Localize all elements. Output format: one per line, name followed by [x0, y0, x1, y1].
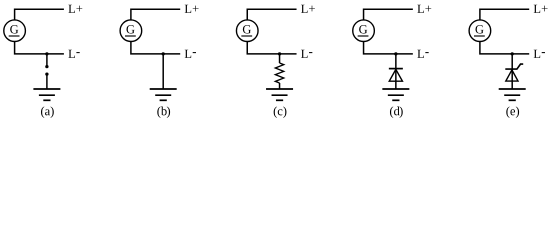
generator G5 circle symbol with letter G underlined: [469, 20, 491, 42]
node L- label: [534, 50, 545, 58]
generator G1 circle symbol with letter G underlined: [4, 20, 26, 42]
ground earth symbol: [33, 89, 60, 100]
node L+ label: [68, 5, 82, 13]
wire from generator G5 top to L+ terminal: [480, 9, 529, 20]
wire from generator G1 top to L+ terminal: [15, 9, 64, 20]
junction dot on L- wire: [511, 52, 514, 55]
node L- label: [185, 50, 196, 58]
wire from generator G5 bottom to L- terminal: [480, 42, 529, 54]
wire from junction directly to ground: [162, 54, 164, 89]
wire from junction to resistor: [279, 54, 281, 63]
node L- label: [68, 50, 79, 58]
wire from junction down to removable link upper terminal: [46, 54, 48, 67]
junction dot on L- wire: [162, 52, 165, 55]
zener diode Z cathode bar with bent hook: [505, 64, 523, 69]
junction dot on L- wire: [278, 52, 281, 55]
node L+ label: [301, 5, 315, 13]
removable link upper terminal dot: [45, 65, 48, 68]
wire from generator G4 bottom to L- terminal: [364, 42, 413, 54]
wire from junction through diode to ground: [395, 54, 397, 89]
wire from generator G2 top to L+ terminal: [131, 9, 180, 20]
node L+ label: [185, 5, 199, 13]
generator G3 circle symbol with letter G underlined: [236, 20, 258, 42]
caption (e): [506, 107, 519, 118]
caption (d): [390, 107, 403, 118]
caption (b): [157, 107, 170, 118]
generator G2 circle symbol with letter G underlined: [120, 20, 142, 42]
caption (a): [41, 107, 54, 118]
diode D anode triangle: [389, 69, 402, 81]
junction dot on L- wire: [45, 52, 48, 55]
node L- label: [417, 50, 428, 58]
junction dot on L- wire: [394, 52, 397, 55]
node L- label: [301, 50, 312, 58]
resistor R earthing resistor zigzag: [275, 63, 283, 83]
node L+ label: [417, 5, 431, 13]
wire from generator G3 bottom to L- terminal: [247, 42, 296, 54]
caption (c): [274, 107, 287, 118]
generator G4 circle symbol with letter G underlined: [353, 20, 375, 42]
wire from generator G2 bottom to L- terminal: [131, 42, 180, 54]
node L+ label: [534, 5, 548, 13]
ground earth symbol: [499, 89, 526, 100]
diode D cathode bar: [389, 68, 403, 70]
wire from generator G4 top to L+ terminal: [364, 9, 413, 20]
wire from generator G1 bottom to L- terminal: [15, 42, 64, 54]
wire from junction through zener diode to ground: [511, 54, 513, 89]
ground earth symbol: [266, 89, 293, 100]
removable link lower terminal dot: [45, 72, 48, 75]
ground earth symbol: [150, 89, 177, 100]
wire from resistor to ground: [279, 83, 281, 89]
wire from generator G3 top to L+ terminal: [247, 9, 296, 20]
zener diode Z anode triangle: [506, 70, 518, 81]
ground earth symbol: [382, 89, 409, 100]
wire from lower terminal to ground: [46, 74, 48, 89]
